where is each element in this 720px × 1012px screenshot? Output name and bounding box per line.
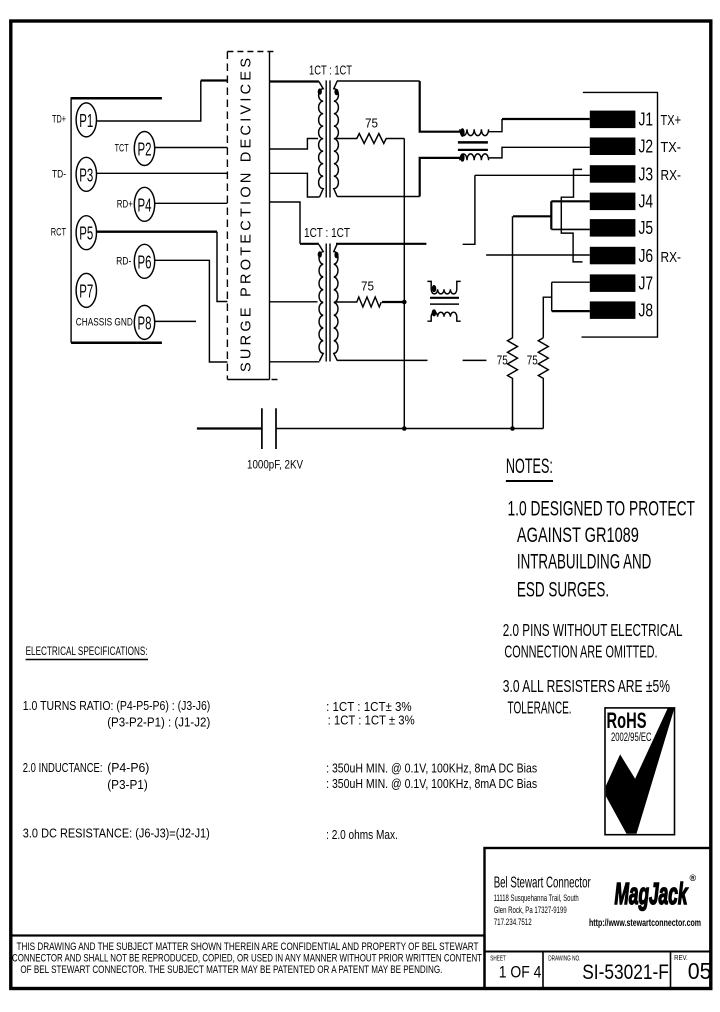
svg-text:P8: P8 <box>138 313 152 333</box>
svg-text:SHEET: SHEET <box>490 956 506 963</box>
label RX- upper <box>661 167 682 184</box>
wire P2 to surge protector <box>155 147 228 149</box>
pin P5 <box>76 216 96 250</box>
svg-text:75: 75 <box>527 354 538 368</box>
wire P3 to surge protector <box>97 172 228 174</box>
junction R2 output node <box>402 300 407 305</box>
svg-text:RX-: RX- <box>661 167 682 184</box>
resistor R3 75 vertical <box>497 216 518 428</box>
svg-text:SURGE PROTECTION DECIVICES: SURGE PROTECTION DECIVICES <box>239 58 255 372</box>
svg-text:P3: P3 <box>79 165 93 185</box>
wire P8 chassis stub <box>155 320 196 322</box>
pin P6 <box>134 244 154 278</box>
svg-text:MagJack: MagJack <box>615 876 689 911</box>
wire T1 secondary top to choke L1 <box>337 81 460 132</box>
label CHASSIS GND <box>76 316 133 328</box>
wire T2 secondary bottom <box>337 359 487 361</box>
svg-text:INTRABUILDING AND: INTRABUILDING AND <box>517 550 651 574</box>
pin P4 <box>134 187 154 221</box>
svg-text:RoHS: RoHS <box>607 708 647 733</box>
wire choke L1 to J1 <box>489 119 590 132</box>
svg-text:RD+: RD+ <box>117 198 133 210</box>
wire ground rail <box>197 427 543 429</box>
svg-text:J6: J6 <box>639 246 654 266</box>
label RCT <box>51 227 66 239</box>
svg-text:J2: J2 <box>639 137 654 157</box>
label TCT <box>115 143 129 155</box>
wire T2 secondary top <box>336 243 426 245</box>
pin header bracket left <box>71 97 162 343</box>
wire P5 to surge protector <box>97 232 228 302</box>
wire J7 J8 to R4 <box>543 297 551 338</box>
connector pin J1 <box>590 110 653 130</box>
wire surge to T2 primary center tap <box>270 301 318 303</box>
svg-text:http://www.stewartconnector.co: http://www.stewartconnector.com <box>589 917 701 929</box>
svg-text:P1: P1 <box>79 111 93 131</box>
capacitor C1 1000pF 2KV <box>247 408 303 471</box>
resistor R1 75 <box>336 117 405 144</box>
svg-text:: 2.0 ohms Max.: : 2.0 ohms Max. <box>326 827 398 842</box>
label RD- <box>116 255 132 267</box>
svg-text:CONNECTOR AND SHALL NOT BE REP: CONNECTOR AND SHALL NOT BE REPRODUCED, C… <box>12 953 482 965</box>
wire surge to T1 primary bottom <box>270 173 320 197</box>
svg-text:DRAWING NO.: DRAWING NO. <box>548 956 580 963</box>
wire T1 secondary bottom to choke L1 <box>337 158 459 197</box>
transformer T2 1CT:1CT <box>304 226 350 362</box>
wire J7 <box>552 282 590 311</box>
svg-text:OF BEL STEWART CONNECTOR. THE: OF BEL STEWART CONNECTOR. THE SUBJECT MA… <box>20 964 442 976</box>
svg-text:3.0 DC RESISTANCE: (J6-J3)=(J2: 3.0 DC RESISTANCE: (J6-J3)=(J2-J1) <box>23 826 210 841</box>
svg-text:REV.: REV. <box>674 955 688 962</box>
svg-text:1 OF 4: 1 OF 4 <box>499 964 542 982</box>
connector pin J5 <box>590 218 653 238</box>
svg-text:P6: P6 <box>138 252 152 272</box>
svg-text:: 350uH MIN. @ 0.1V, 100KHz, 8: : 350uH MIN. @ 0.1V, 100KHz, 8mA DC Bias <box>326 776 537 791</box>
svg-text:SI-53021-F: SI-53021-F <box>582 961 669 984</box>
junction rail node B <box>510 426 515 431</box>
svg-text:RX-: RX- <box>661 249 682 266</box>
wire choke L1 to J2 <box>489 147 590 158</box>
wire J3 to J6 crossover <box>561 169 582 262</box>
pin P8 <box>134 305 154 339</box>
svg-text:Glen Rock, Pa 17327-9199: Glen Rock, Pa 17327-9199 <box>494 905 567 915</box>
svg-text:1CT : 1CT: 1CT : 1CT <box>304 226 350 240</box>
wire P6 to surge protector <box>155 260 228 362</box>
wire surge to T2 primary top <box>270 202 319 244</box>
svg-text:TD-: TD- <box>52 168 66 180</box>
svg-text:(P3-P1): (P3-P1) <box>107 777 148 792</box>
svg-text:NOTES:: NOTES: <box>506 454 553 478</box>
svg-text:J5: J5 <box>639 218 654 238</box>
wire surge to T2 primary bottom <box>270 361 320 363</box>
svg-text:J1: J1 <box>639 110 654 130</box>
svg-text:P5: P5 <box>79 224 93 244</box>
svg-text:1000pF, 2KV: 1000pF, 2KV <box>247 460 303 472</box>
svg-text:(P4-P6): (P4-P6) <box>107 760 149 775</box>
wire surge to T1 primary top <box>270 80 319 82</box>
wire J8 <box>552 310 590 312</box>
svg-text:1.0 TURNS RATIO: (P4-P5-P6) :: 1.0 TURNS RATIO: (P4-P5-P6) : (J3-J6) <box>23 698 211 713</box>
connector pin J3 <box>590 164 653 184</box>
label RD+ <box>117 198 133 210</box>
resistor R2 75 <box>336 280 405 308</box>
pin P3 <box>76 157 96 191</box>
svg-text:THIS DRAWING AND THE SUBJECT M: THIS DRAWING AND THE SUBJECT MATTER SHOW… <box>17 941 479 953</box>
connector J bracket <box>582 92 658 337</box>
wire J4 J5 tie <box>513 201 590 229</box>
wire P4 to surge protector <box>155 202 228 204</box>
connector pin J6 <box>590 246 653 266</box>
svg-text:CONNECTION ARE OMITTED.: CONNECTION ARE OMITTED. <box>504 642 657 662</box>
wire P1 to surge protector <box>97 81 228 122</box>
common mode choke L2 <box>427 281 460 321</box>
svg-text:75: 75 <box>365 117 378 131</box>
svg-text:CHASSIS GND: CHASSIS GND <box>76 316 133 328</box>
svg-text:: 350uH MIN. @ 0.1V, 100KHz, 8: : 350uH MIN. @ 0.1V, 100KHz, 8mA DC Bias <box>326 761 537 776</box>
svg-text:ELECTRICAL SPECIFICATIONS:: ELECTRICAL SPECIFICATIONS: <box>26 644 148 658</box>
svg-text:J3: J3 <box>639 164 654 184</box>
svg-text:75: 75 <box>497 354 508 368</box>
svg-text:AGAINST GR1089: AGAINST GR1089 <box>517 523 639 547</box>
wire T2 secondary top to J3 <box>463 175 475 244</box>
svg-text:1.0 DESIGNED TO PROTECT: 1.0 DESIGNED TO PROTECT <box>508 497 696 521</box>
wire J3 <box>475 174 590 176</box>
connector pin J7 <box>590 274 653 294</box>
junction rail node A <box>402 426 407 431</box>
svg-text:11118 Susquehanna Trail, South: 11118 Susquehanna Trail, South <box>494 893 579 903</box>
pin P7 <box>76 273 96 307</box>
svg-text:TCT: TCT <box>115 143 129 155</box>
svg-text:TX-: TX- <box>661 139 682 156</box>
svg-text:ESD SURGES.: ESD SURGES. <box>517 578 609 602</box>
label TX+ <box>661 112 682 129</box>
svg-text:75: 75 <box>361 280 374 294</box>
svg-text:2002/95/EC: 2002/95/EC <box>611 732 652 744</box>
wire surge to T1 primary center tap <box>270 139 319 150</box>
svg-text:Bel Stewart Connector: Bel Stewart Connector <box>494 875 591 892</box>
svg-text:TD+: TD+ <box>52 114 66 126</box>
svg-text:2.0 INDUCTANCE:: 2.0 INDUCTANCE: <box>23 760 103 775</box>
connector pin J2 <box>590 137 653 157</box>
transformer T1 1CT:1CT <box>309 64 352 198</box>
svg-text:717.234.7512: 717.234.7512 <box>494 917 532 927</box>
label RX- lower <box>661 249 682 266</box>
svg-text:RCT: RCT <box>51 227 66 239</box>
svg-text:J7: J7 <box>639 274 654 294</box>
connector pin J4 <box>590 192 653 212</box>
svg-text:TOLERANCE.: TOLERANCE. <box>508 698 572 718</box>
svg-text:(P3-P2-P1) : (J1-J2): (P3-P2-P1) : (J1-J2) <box>107 715 210 730</box>
svg-text:RD-: RD- <box>116 255 132 267</box>
svg-text:1CT : 1CT: 1CT : 1CT <box>309 64 352 78</box>
svg-text:J4: J4 <box>639 192 654 212</box>
label TD- <box>52 168 66 180</box>
pin P2 <box>134 132 154 166</box>
resistor R4 75 vertical <box>527 338 549 429</box>
wire resistor bus vertical <box>403 139 405 429</box>
pin P1 <box>76 103 96 137</box>
svg-text:P7: P7 <box>79 281 93 301</box>
svg-text:®: ® <box>690 873 697 883</box>
svg-text:2.0 PINS WITHOUT ELECTRICAL: 2.0 PINS WITHOUT ELECTRICAL <box>503 620 683 640</box>
connector pin J8 <box>590 301 653 321</box>
svg-text:05: 05 <box>688 958 712 984</box>
svg-text:P2: P2 <box>138 140 152 160</box>
svg-text:J8: J8 <box>639 301 654 321</box>
svg-text:3.0 ALL RESISTERS ARE ±5%: 3.0 ALL RESISTERS ARE ±5% <box>503 676 670 696</box>
svg-text:P4: P4 <box>138 195 152 215</box>
svg-text:TX+: TX+ <box>661 112 682 129</box>
label TD+ <box>52 114 66 126</box>
svg-text:: 1CT : 1CT ± 3%: : 1CT : 1CT ± 3% <box>328 713 415 728</box>
label TX- <box>661 139 682 156</box>
wire J6 <box>486 254 590 256</box>
common mode choke L1 <box>458 128 489 162</box>
surge protection devices box U1 <box>227 52 277 380</box>
